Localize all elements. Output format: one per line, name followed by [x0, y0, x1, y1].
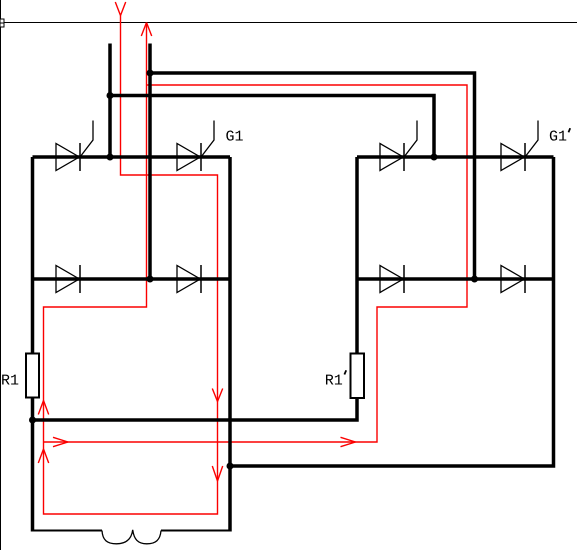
junction at (435,157)	[431, 154, 438, 161]
thyristor G1 (left bridge top-right)	[177, 121, 214, 172]
label G1'	[550, 130, 566, 140]
wire: bottom load wire right segment (y=530)	[161, 530, 230, 532]
red arrow: downward on x=217.5 at y=481	[212, 466, 222, 481]
wire: phase drop B (thick vertical x=150)	[148, 44, 152, 280]
red arrow: down into source line at x=120.5	[115, 2, 125, 16]
node: source terminal handle (stacked squares at left end of bus)	[0, 19, 4, 23]
red current path: loop B branch (y85 right - x467.5 down - y308 - x377 down - y442 left to x43.5)	[44, 85, 468, 442]
label R1	[2, 375, 18, 385]
wire: R1' bottom lead and return wire y=420 to R1	[33, 397, 358, 420]
wire: right bridge right side (x=554) and return wire y=463	[230, 157, 554, 466]
red arrow: upward on x=43.5 at y=447.5	[38, 449, 48, 463]
wire: lower bus to right bridge (y=95.5) with drop x=435	[110, 96, 434, 158]
label R1'	[326, 375, 342, 385]
wire: right bridge bottom row (y=279)	[357, 277, 554, 281]
junction at (150,73)	[147, 70, 154, 77]
wire: bottom load wire left segment (y=530)	[33, 530, 103, 532]
wire: left bridge bottom row (y=279)	[33, 277, 231, 281]
red arrow: upward on x=43.5 at y=399.5	[38, 401, 48, 415]
wire: left bridge right side (x=230)	[228, 157, 232, 532]
junction at (150,279)	[147, 276, 154, 283]
wire: left bridge left side lower (R1 to bottom loop)	[31, 397, 35, 532]
diode D1 (left bridge bottom-left)	[56, 265, 80, 293]
wire: right bridge top row (y=157)	[357, 155, 554, 159]
junction at (475,279)	[471, 276, 478, 283]
thyristor V1' (right bridge top-left)	[380, 121, 417, 172]
wire: left bridge left side upper (x=32 down to R1)	[31, 157, 35, 354]
diode D2 (left bridge bottom-right)	[177, 265, 201, 293]
resistor R1'	[351, 354, 365, 399]
wire: upper bus to right bridge (y=73) with right drop x=475	[150, 73, 475, 279]
red arrow: rightward on y=442 at x=68	[53, 437, 68, 446]
load: squiggle symbol in bottom wire	[102, 530, 161, 544]
junction at (110,95.5)	[107, 92, 114, 99]
junction at (110,157)	[107, 154, 114, 161]
red arrow: rightward on y=442 at x=355.5	[341, 437, 356, 446]
red current path: loop A (source - x120.5 down - y175 - x217.5 down - y514.5 - x43.5 up - y307.5 - x146.5 up to source)	[44, 16, 218, 515]
red arrow: downward on x=217.5 at y=405	[212, 389, 222, 402]
wire: left bridge top row (y=157)	[33, 155, 231, 159]
diode D1' (right bridge bottom-left)	[380, 265, 404, 293]
thyristor V1 (left bridge top-left)	[56, 121, 93, 172]
junction at (32,420)	[29, 417, 36, 424]
wire: left window border (thin vertical at x=0)	[0, 0, 2, 550]
red arrow: up into source line at x=146.5	[141, 23, 151, 37]
thyristor G1' (right bridge top-right)	[501, 121, 538, 172]
wire: right bridge left side (x=357 down to R1')	[355, 157, 359, 354]
resistor R1	[26, 354, 39, 398]
wire: AC source bus (thin horizontal at y=22)	[0, 22, 577, 24]
junction at (230,463)	[227, 463, 234, 470]
label G1	[226, 130, 242, 140]
wire: phase drop A (thick vertical x=110)	[108, 44, 112, 158]
diode D2' (right bridge bottom-right)	[501, 265, 525, 293]
